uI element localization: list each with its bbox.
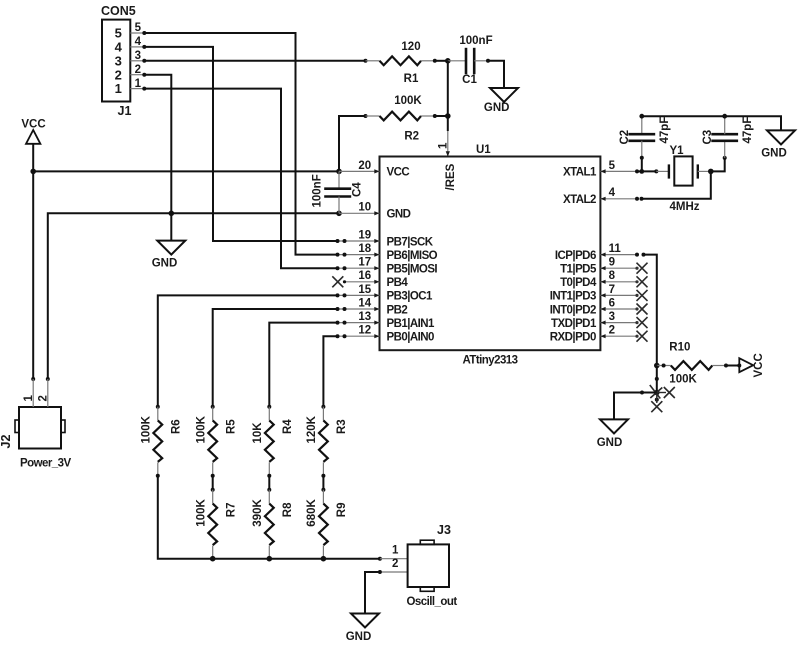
svg-text:100K: 100K (196, 415, 208, 443)
svg-text:16: 16 (358, 270, 371, 282)
svg-text:4: 4 (135, 36, 142, 48)
wire pin 12 PB0|AIN0 to R3 (323, 336, 337, 407)
power symbol VCC (right) (739, 358, 753, 372)
U1 right pin arrows (600, 169, 605, 338)
wire J3 pin 2 to ground (365, 572, 380, 614)
svg-text:2: 2 (37, 395, 49, 401)
svg-text:GND: GND (346, 631, 372, 643)
svg-text:T0|PD4: T0|PD4 (560, 277, 597, 289)
svg-text:VCC: VCC (753, 353, 765, 377)
capacitor C2 (641, 116, 643, 134)
svg-text:PB2: PB2 (387, 304, 408, 316)
wire J1 pin1 to PB5|MOSI (net MOSI) (144, 89, 337, 269)
resistor R10 leads and body (657, 365, 671, 367)
node R10 junction (654, 363, 660, 369)
svg-text:120K: 120K (306, 415, 318, 443)
node /RES junction at R1/C1 (445, 58, 451, 64)
svg-text:ICP|PD6: ICP|PD6 (555, 250, 596, 262)
U1 left pin stubs (338, 171, 380, 336)
svg-text:R6: R6 (171, 419, 183, 434)
connector J3 (Oscill_out) body (408, 544, 449, 587)
svg-text:C3: C3 (702, 130, 714, 145)
svg-text:C1: C1 (462, 74, 477, 86)
U1 right pin numbers (609, 160, 622, 337)
node GND / C4 junction (336, 211, 342, 217)
wire pin 11 ICP|PD6 to R10 (635, 253, 639, 257)
ground symbol GND (under J3) (351, 614, 379, 628)
svg-text:R9: R9 (336, 502, 348, 517)
no-connect X on pin 16 PB4 (332, 276, 343, 287)
wire pin 14 PB2 to R5 (213, 309, 338, 407)
capacitor C1 (448, 60, 466, 62)
svg-text:100K: 100K (669, 374, 697, 386)
resistor R6 (156, 405, 160, 409)
U1 pin 1 arrow (446, 151, 450, 156)
U1 right pin names (550, 167, 597, 344)
NC stub down with X (656, 393, 658, 404)
svg-text:1: 1 (23, 395, 35, 402)
resistor R9 (322, 490, 324, 504)
svg-text:5: 5 (115, 26, 122, 41)
wire C1 to ground (488, 61, 504, 88)
connector J2 (Power_3V) body (19, 407, 61, 449)
wire R3 to R9 (322, 476, 324, 490)
wire J1 pin2 to GND net (144, 75, 171, 214)
wire /RES vertical R1 to R2 (447, 61, 449, 116)
wire GND rail horizontal to pin 10 (48, 213, 339, 379)
wire NC cluster to ground (614, 393, 657, 420)
svg-text:PB0|AIN0: PB0|AIN0 (387, 332, 435, 344)
no-connect X marks on right pins 9 8 7 6 3 2 (637, 263, 648, 342)
U1 pin 1 stub (447, 131, 449, 157)
svg-text:13: 13 (358, 311, 371, 323)
wire R10 junction down to NC cluster (656, 366, 658, 393)
wire R2 left lead to VCC junction (339, 116, 366, 171)
svg-text:PB5|MOSI: PB5|MOSI (387, 264, 438, 276)
svg-text:3: 3 (115, 53, 122, 68)
wire R1 to C1 junction (435, 60, 448, 62)
svg-text:1: 1 (392, 545, 399, 557)
svg-text:15: 15 (358, 284, 371, 296)
svg-text:R7: R7 (225, 502, 237, 517)
U1 left pin connection dots (336, 239, 347, 338)
ground symbol GND (crystal area) (767, 130, 795, 144)
U1 left pin names (387, 167, 438, 344)
U1 left pin arrows (374, 169, 379, 338)
wire VCC rail horizontal to pin 20 (33, 170, 339, 172)
J2 pin 2 stub (47, 379, 49, 407)
wire R10 to VCC symbol (726, 365, 739, 367)
svg-text:47pF: 47pF (742, 117, 754, 144)
connector J3 pin 1 stub (380, 558, 408, 560)
svg-text:CON5: CON5 (101, 4, 136, 18)
svg-text:PB7|SCK: PB7|SCK (387, 236, 434, 248)
svg-text:100K: 100K (141, 415, 153, 443)
ground symbol GND (left, under CON5 net) (170, 213, 172, 240)
svg-text:10K: 10K (252, 422, 264, 444)
svg-text:5: 5 (609, 160, 616, 172)
svg-text:RXD|PD0: RXD|PD0 (550, 332, 596, 344)
svg-text:C4: C4 (352, 182, 364, 197)
svg-text:1: 1 (135, 78, 142, 90)
svg-text:J2: J2 (0, 435, 13, 449)
NC stub right with X (657, 392, 666, 394)
svg-text:47pF: 47pF (659, 117, 671, 144)
power symbol VCC (top left) (26, 130, 40, 144)
node NC cluster junction (654, 390, 660, 396)
svg-text:6: 6 (609, 297, 615, 309)
svg-text:GND: GND (484, 102, 510, 114)
wire R4 to R8 (268, 476, 270, 490)
svg-text:100K: 100K (394, 95, 422, 107)
wire R6 bottom to bus (158, 476, 380, 559)
svg-text:7: 7 (609, 284, 615, 296)
node GND rail junction at x171 (169, 211, 175, 217)
ground symbol GND (under R10) (600, 419, 628, 433)
svg-text:2: 2 (115, 67, 122, 82)
resistor R1 leads and body (364, 59, 368, 63)
svg-text:14: 14 (358, 297, 371, 309)
svg-text:8: 8 (609, 270, 616, 282)
wire VCC symbol to VCC rail (32, 144, 34, 172)
node C2 top junction (639, 114, 644, 119)
node C3 top junction (722, 114, 727, 119)
svg-text:/RES: /RES (445, 163, 457, 190)
svg-text:R10: R10 (669, 342, 690, 354)
resistor R5 (211, 405, 215, 409)
svg-text:PB3|OC1: PB3|OC1 (387, 291, 434, 303)
svg-text:ATtiny2313: ATtiny2313 (462, 355, 517, 367)
svg-text:R2: R2 (404, 131, 419, 143)
svg-text:PB1|AIN1: PB1|AIN1 (387, 318, 436, 330)
svg-text:9: 9 (609, 257, 615, 269)
svg-text:PB4: PB4 (387, 277, 409, 289)
resistor R3 (321, 405, 325, 409)
svg-text:680K: 680K (306, 499, 318, 527)
wire R5 to R7 (212, 476, 214, 490)
wire /RES down to pin 1 (447, 116, 449, 131)
svg-text:R4: R4 (282, 419, 294, 434)
svg-text:100nF: 100nF (312, 174, 324, 207)
J2 pin 1 stub (32, 379, 34, 407)
svg-text:J1: J1 (118, 104, 132, 118)
crystal Y1 left lead (656, 170, 669, 172)
svg-text:INT0|PD2: INT0|PD2 (550, 304, 596, 316)
wire pin 13 PB1|AIN1 to R4 (269, 323, 337, 407)
svg-text:TXD|PD1: TXD|PD1 (551, 318, 597, 330)
IC U1 body (380, 157, 601, 351)
wire crystal caps ground bus (642, 116, 781, 130)
node VCC rail junction (30, 169, 36, 175)
wire pin 15 PB3|OC1 to R6 (158, 295, 338, 406)
crystal Y1 right lead (698, 170, 711, 172)
wire J1 pin5 to PB6|MISO (net MISO) (144, 33, 337, 255)
resistor R2 leads and body (366, 115, 380, 117)
svg-text:T1|PD5: T1|PD5 (560, 264, 597, 276)
J1 pin 2 stub (130, 74, 144, 76)
crystal Y1 (668, 164, 670, 178)
J1 pin connection dots (142, 31, 146, 91)
svg-text:XTAL1: XTAL1 (563, 167, 597, 179)
svg-text:Power_3V: Power_3V (20, 458, 71, 470)
U1 right pin stubs (600, 171, 636, 336)
right NC pin end dots (635, 267, 638, 338)
svg-text:11: 11 (609, 243, 622, 255)
wire J1 pin3 to R1 (net RESET drive) (144, 60, 365, 62)
svg-text:100nF: 100nF (459, 35, 492, 47)
wire XTAL1 net (635, 169, 639, 173)
J1 pin 1 stub (130, 88, 144, 90)
svg-text:R5: R5 (225, 419, 237, 434)
capacitor C4 (338, 171, 340, 188)
J1 inside pad numbers (115, 26, 123, 97)
resistor R4 (267, 405, 271, 409)
svg-text:120: 120 (401, 41, 420, 53)
J1 pin 4 stub (130, 46, 144, 48)
svg-text:Oscill_out: Oscill_out (407, 596, 458, 608)
J1 pin 5 stub (130, 32, 144, 34)
svg-text:PB6|MISO: PB6|MISO (387, 250, 438, 262)
node /RES junction at R2 (445, 113, 451, 119)
svg-text:3: 3 (135, 50, 141, 62)
svg-text:20: 20 (358, 160, 371, 172)
connector J1 (CON5) body (102, 20, 130, 102)
svg-text:1: 1 (438, 142, 450, 149)
wire XTAL2 net (642, 171, 711, 198)
J1 pin 3 stub (130, 60, 144, 62)
svg-text:GND: GND (761, 147, 787, 159)
wire J1 pin4 to PB7|SCK (net SCK) (144, 47, 337, 241)
svg-text:VCC: VCC (21, 119, 45, 131)
svg-text:R1: R1 (404, 73, 419, 85)
U1 left pin numbers (358, 160, 371, 337)
svg-text:GND: GND (387, 209, 411, 221)
node R9 bus junction (321, 556, 327, 562)
rotated X at cluster junction (650, 385, 663, 399)
svg-text:2: 2 (135, 64, 141, 76)
node R8 bus junction (267, 556, 273, 562)
node XTAL1 / C2 junction (639, 169, 644, 174)
svg-text:17: 17 (358, 257, 371, 269)
svg-text:R3: R3 (336, 419, 348, 434)
svg-text:R8: R8 (282, 502, 294, 517)
node bus to J3 pin 1 (378, 557, 382, 561)
svg-text:2: 2 (609, 325, 615, 337)
svg-text:19: 19 (358, 229, 371, 241)
capacitor C3 (724, 141, 726, 158)
svg-text:2: 2 (392, 558, 398, 570)
svg-text:4: 4 (609, 187, 616, 199)
resistor R7 (212, 490, 214, 504)
node R7 bus junction (210, 556, 216, 562)
svg-text:C2: C2 (619, 130, 631, 145)
node crystal right / XTAL2 / C3 junction (708, 169, 714, 175)
svg-text:100K: 100K (196, 499, 208, 527)
node VCC / C4 / R2 junction (336, 169, 342, 175)
svg-text:GND: GND (152, 258, 178, 270)
svg-text:XTAL2: XTAL2 (563, 194, 596, 206)
svg-text:VCC: VCC (387, 167, 410, 179)
svg-text:INT1|PD3: INT1|PD3 (550, 291, 596, 303)
svg-text:390K: 390K (252, 499, 264, 527)
svg-text:GND: GND (597, 437, 623, 449)
connector J3 pin 2 stub (380, 571, 408, 573)
svg-text:5: 5 (135, 22, 142, 34)
svg-text:4: 4 (115, 40, 123, 55)
svg-text:10: 10 (358, 202, 371, 214)
svg-text:18: 18 (358, 243, 371, 255)
svg-text:12: 12 (358, 325, 371, 337)
wire crystal right to C3 (711, 158, 725, 172)
wire VCC rail down to J2 pin1 (32, 171, 34, 379)
wire R2 to /RES vertical (435, 115, 448, 117)
svg-text:U1: U1 (476, 144, 491, 156)
ground symbol GND (under C1) (490, 88, 518, 102)
J1 outside pin numbers (135, 22, 142, 90)
svg-text:J3: J3 (437, 523, 451, 537)
svg-text:3: 3 (609, 311, 615, 323)
svg-text:Y1: Y1 (670, 145, 685, 157)
resistor R8 (268, 490, 270, 504)
svg-text:4MHz: 4MHz (670, 201, 700, 213)
svg-text:1: 1 (115, 81, 122, 96)
